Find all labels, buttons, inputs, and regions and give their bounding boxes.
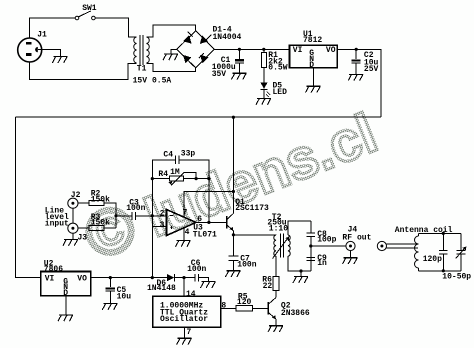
svg-text:7: 7 bbox=[183, 209, 188, 218]
svg-text:7: 7 bbox=[187, 328, 192, 337]
svg-text:VO: VO bbox=[326, 46, 336, 55]
svg-text:150k: 150k bbox=[91, 219, 110, 228]
svg-text:J1: J1 bbox=[37, 30, 47, 39]
svg-text:Oscillator: Oscillator bbox=[160, 315, 208, 324]
svg-text:35V: 35V bbox=[212, 70, 227, 79]
svg-text:15V: 15V bbox=[133, 77, 148, 86]
svg-text:C4: C4 bbox=[163, 150, 173, 159]
svg-text:T1: T1 bbox=[137, 65, 147, 74]
svg-text:3: 3 bbox=[160, 221, 165, 230]
svg-text:1:10: 1:10 bbox=[269, 225, 288, 234]
svg-text:1N4004: 1N4004 bbox=[213, 33, 242, 42]
svg-text:33p: 33p bbox=[181, 150, 196, 159]
svg-text:10-50p: 10-50p bbox=[442, 273, 471, 282]
svg-text:1N4148: 1N4148 bbox=[147, 284, 176, 293]
svg-text:0.5W: 0.5W bbox=[268, 64, 287, 73]
svg-text:100n: 100n bbox=[187, 265, 206, 274]
svg-text:R4: R4 bbox=[158, 170, 168, 179]
svg-text:Antenna coil: Antenna coil bbox=[395, 226, 453, 235]
svg-text:1M: 1M bbox=[170, 168, 180, 177]
svg-text:VI: VI bbox=[293, 46, 303, 55]
svg-text:100n: 100n bbox=[126, 204, 145, 213]
svg-text:J3: J3 bbox=[78, 234, 88, 243]
svg-text:LED: LED bbox=[273, 88, 288, 97]
svg-text:14: 14 bbox=[186, 290, 196, 299]
svg-text:input: input bbox=[45, 220, 69, 229]
svg-text:10u: 10u bbox=[117, 293, 132, 302]
svg-text:2N3866: 2N3866 bbox=[281, 309, 310, 318]
svg-text:0.5A: 0.5A bbox=[152, 77, 171, 86]
svg-text:100p: 100p bbox=[317, 235, 336, 244]
svg-text:8: 8 bbox=[221, 302, 226, 311]
svg-text:120: 120 bbox=[237, 298, 252, 307]
svg-text:2: 2 bbox=[160, 210, 165, 219]
svg-text:VO: VO bbox=[77, 274, 87, 283]
svg-text:J2: J2 bbox=[71, 191, 81, 200]
svg-text:2SC1173: 2SC1173 bbox=[235, 204, 269, 213]
svg-text:120p: 120p bbox=[423, 255, 442, 264]
svg-text:22: 22 bbox=[263, 282, 273, 291]
svg-text:100n: 100n bbox=[237, 260, 256, 269]
svg-text:VI: VI bbox=[45, 274, 55, 283]
svg-text:RF: RF bbox=[342, 233, 352, 242]
svg-text:TL071: TL071 bbox=[193, 230, 217, 239]
svg-text:150k: 150k bbox=[91, 195, 110, 204]
svg-text:25V: 25V bbox=[364, 65, 379, 74]
svg-text:SW1: SW1 bbox=[82, 4, 97, 13]
svg-text:4: 4 bbox=[185, 228, 190, 237]
svg-text:1n: 1n bbox=[317, 259, 327, 268]
svg-text:out: out bbox=[357, 233, 372, 242]
svg-text:7812: 7812 bbox=[303, 36, 322, 45]
svg-text:7806: 7806 bbox=[44, 265, 63, 274]
